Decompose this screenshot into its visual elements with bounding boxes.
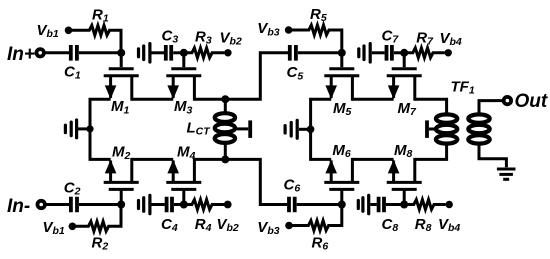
junction stage2 rail bypass node <box>307 126 315 134</box>
bypass cap to AC ground (stage2 source rail) <box>285 120 297 138</box>
transistor M3 <box>166 53 201 101</box>
svg-text:R3: R3 <box>195 28 212 46</box>
node G7 junction <box>400 49 408 57</box>
resistor R5 <box>291 25 342 53</box>
svg-text:Vb4: Vb4 <box>440 30 462 48</box>
wire bypass to C7 <box>372 51 385 54</box>
resistor R8 <box>407 200 446 210</box>
wire C3 to node G3 <box>173 51 184 54</box>
node G3 junction <box>180 49 188 57</box>
capacitor C2 <box>71 197 77 213</box>
wire C4 to node G4 <box>174 203 184 206</box>
svg-text:TF1: TF1 <box>451 79 475 97</box>
transformer TF1 secondary winding <box>468 114 489 143</box>
node LCT bottom junction <box>221 155 229 163</box>
bias terminal Vb1 (bottom) <box>69 223 77 231</box>
wire M5 drain to M7 source <box>352 98 393 101</box>
capacitor C3 <box>166 45 171 61</box>
wire M6 drain to M8 source <box>352 158 393 161</box>
transistor M7 <box>387 53 422 101</box>
transistor M2 <box>104 158 139 205</box>
LCT center tap to AC ground <box>237 120 251 137</box>
wire rail to bypass <box>78 127 90 130</box>
wire rail to bypass <box>299 128 311 131</box>
terminal In+ <box>37 49 44 56</box>
svg-text:M7: M7 <box>398 100 418 118</box>
wire C2 to node A2 <box>79 203 121 206</box>
svg-text:C4: C4 <box>161 216 178 234</box>
terminal Out <box>504 97 511 104</box>
svg-text:Vb3: Vb3 <box>257 20 279 38</box>
node LCT top junction <box>221 95 229 103</box>
svg-text:R5: R5 <box>310 6 327 24</box>
svg-text:M1: M1 <box>111 98 130 116</box>
bias terminal Vb3 (bottom) <box>285 222 293 230</box>
wire M7 drain to TF1 primary <box>415 99 447 114</box>
svg-text:C3: C3 <box>162 27 179 45</box>
wire LCT top to C5 <box>225 53 288 99</box>
node A2 junction <box>117 201 125 209</box>
bias terminal Vb1 <box>65 27 73 35</box>
bias terminal Vb4 <box>445 49 452 56</box>
node A1 junction <box>117 49 125 57</box>
TF1 primary center tap to AC ground <box>427 120 435 137</box>
node G8 junction <box>400 201 408 209</box>
capacitor C1 <box>71 45 77 61</box>
node G6 junction <box>338 201 346 209</box>
svg-text:Vb1: Vb1 <box>37 22 59 40</box>
bypass cap to AC ground (M4 gate) <box>139 195 150 213</box>
capacitor C5 <box>290 45 296 61</box>
junction rail bypass node <box>86 125 93 132</box>
svg-text:M3: M3 <box>174 98 193 116</box>
svg-text:C5: C5 <box>287 64 304 82</box>
wire C6 to node G6 <box>297 203 342 206</box>
bypass cap to AC ground (M7 gate) <box>359 44 370 62</box>
bypass cap to AC ground (stage1 source rail) <box>65 120 76 138</box>
wire bypass to C8 <box>370 203 377 206</box>
transistor M8 <box>387 158 422 205</box>
node G4 junction <box>180 201 188 209</box>
wire In- to C2 <box>46 203 69 206</box>
svg-text:Vb3: Vb3 <box>257 219 279 237</box>
svg-text:M4: M4 <box>177 144 196 162</box>
svg-text:C2: C2 <box>64 180 81 198</box>
bias terminal Vb4 (bottom) <box>446 201 453 208</box>
svg-text:R1: R1 <box>92 7 109 25</box>
svg-text:R2: R2 <box>92 234 109 252</box>
bias terminal Vb2 (bottom) <box>224 201 232 209</box>
inductor LCT <box>215 99 235 159</box>
svg-text:C6: C6 <box>284 177 301 195</box>
svg-text:Vb1: Vb1 <box>43 219 65 237</box>
resistor R2 <box>74 205 121 232</box>
capacitor C6 <box>289 197 295 213</box>
bypass cap to AC ground (M3 gate) <box>139 44 150 62</box>
svg-text:M2: M2 <box>112 144 131 162</box>
svg-text:R8: R8 <box>415 216 432 234</box>
resistor R3 <box>186 48 224 58</box>
wire bypass to C3 <box>152 51 165 54</box>
capacitor C8 <box>379 197 384 213</box>
transistor M6 <box>324 158 359 205</box>
wire C8 to node G8 <box>386 203 404 206</box>
svg-text:In-: In- <box>7 196 30 217</box>
wire M5 source rail <box>311 99 332 159</box>
transistor M5 <box>324 53 359 101</box>
svg-text:R7: R7 <box>416 29 434 47</box>
svg-text:C7: C7 <box>382 27 400 45</box>
wire TF1 secondary top to Out <box>479 101 502 114</box>
svg-text:LCT: LCT <box>187 120 212 138</box>
svg-text:Vb2: Vb2 <box>217 216 239 234</box>
wire bypass to C4 <box>152 203 165 206</box>
svg-text:R4: R4 <box>195 216 212 234</box>
wire TF1 secondary bottom to ground <box>479 144 506 167</box>
resistor R4 <box>186 200 224 210</box>
svg-text:C1: C1 <box>64 64 81 82</box>
bias terminal Vb3 <box>285 26 293 34</box>
wire M1 drain to M3 source <box>132 98 173 101</box>
svg-text:Vb4: Vb4 <box>438 216 460 234</box>
transistor M4 <box>166 158 201 205</box>
wire In+ to C1 <box>45 51 69 54</box>
transistor M1 <box>104 53 139 101</box>
ground <box>497 169 516 179</box>
wire C1 to node A1 <box>79 51 121 54</box>
bypass cap to AC ground (M8 gate) <box>358 195 368 213</box>
wire M4 drain to LCT bottom <box>194 158 225 161</box>
svg-text:In+: In+ <box>7 44 35 65</box>
transformer TF1 primary winding <box>436 114 457 143</box>
wire LCT bottom to C6 <box>225 159 287 204</box>
resistor R1 <box>71 25 122 52</box>
svg-text:Out: Out <box>515 91 548 112</box>
wire M1 source rail <box>90 99 111 159</box>
svg-text:R6: R6 <box>312 234 329 252</box>
resistor R6 <box>291 205 342 231</box>
node G5 junction <box>338 49 346 57</box>
bias terminal Vb2 <box>224 49 231 56</box>
terminal In- <box>38 201 45 208</box>
wire M2 drain to M4 source <box>132 158 173 161</box>
capacitor C4 <box>167 197 172 213</box>
svg-text:M6: M6 <box>332 142 351 160</box>
svg-text:Vb2: Vb2 <box>220 29 242 47</box>
wire M3 drain to LCT top <box>194 98 225 101</box>
wire TF1 primary bottom to M8 drain <box>415 144 447 159</box>
capacitor C7 <box>387 45 392 61</box>
svg-text:M5: M5 <box>333 100 352 118</box>
resistor R7 <box>407 48 445 58</box>
svg-text:M8: M8 <box>394 142 413 160</box>
wire C7 to node G7 <box>394 51 404 54</box>
wire C5 to node G5 <box>298 51 342 54</box>
svg-text:C8: C8 <box>382 216 399 234</box>
